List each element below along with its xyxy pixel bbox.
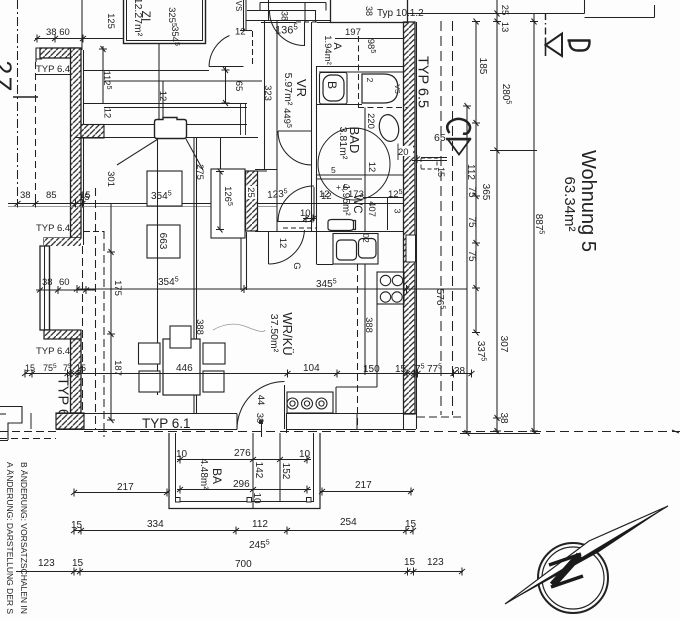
svg-text:220: 220 — [365, 113, 376, 129]
wall jog back hatch y328-345 — [44, 330, 81, 339]
svg-text:12: 12 — [319, 189, 330, 200]
letter C drawn rotated — [447, 119, 470, 134]
dashed line x35.5 — [35, 62, 37, 203]
svg-text:15: 15 — [436, 167, 446, 177]
svg-text:217: 217 — [117, 482, 134, 493]
door centre line — [261, 420, 263, 437]
chain line x494 — [496, 0, 498, 433]
svg-text:TYP 6.1: TYP 6.1 — [142, 416, 191, 431]
svg-text:104: 104 — [303, 363, 320, 374]
svg-text:38: 38 — [20, 190, 31, 201]
door ZI: leaf + arc — [209, 66, 244, 68]
line x220 above cupboard — [220, 137, 222, 171]
dashed roof overhang line y431 — [84, 431, 680, 433]
svg-text:VR: VR — [294, 79, 309, 97]
dim line y489 — [177, 489, 311, 491]
bottom counter with appliances — [287, 392, 333, 413]
chair right 1 — [203, 343, 225, 364]
hall door G arc — [269, 230, 305, 264]
TOP-SECTION — [101, 0, 424, 231]
wall BAD/WC y175-179 — [317, 174, 403, 176]
svg-text:75: 75 — [466, 216, 477, 228]
line x82 top — [81, 0, 83, 50]
window band x40-50 — [40, 246, 50, 330]
bottom-left wall corner hatch — [56, 413, 84, 429]
svg-text:388: 388 — [194, 319, 205, 335]
dashed connector y417 — [417, 416, 462, 418]
hall inner wall hatched x245-258 — [246, 171, 258, 231]
top-left exterior wall hatched band — [40, 48, 78, 58]
line x159 below ZI — [158, 43, 160, 136]
dashed vertical x104 with top jog — [84, 231, 104, 233]
bath door leaf — [278, 130, 312, 132]
appliance circle 1 — [287, 398, 298, 409]
oval washbasin — [377, 113, 401, 143]
chair right 2 — [203, 371, 224, 392]
svg-text:10: 10 — [300, 208, 311, 219]
svg-text:37.50m²: 37.50m² — [268, 314, 280, 353]
dim 65 vertical — [225, 67, 227, 105]
section marker D triangle — [546, 34, 563, 57]
svg-text:TYP 6.4: TYP 6.4 — [36, 346, 70, 357]
svg-text:388: 388 — [363, 317, 374, 333]
room A walls — [317, 66, 403, 68]
svg-text:25: 25 — [245, 187, 256, 198]
hall west wall x264-277 — [264, 21, 266, 170]
room ZI double rect — [124, 0, 206, 44]
svg-text:10: 10 — [251, 492, 262, 504]
svg-text:20: 20 — [398, 147, 409, 158]
bottom dim line y433 — [460, 433, 540, 435]
svg-text:A ÄNDERUNG: DARSTELLUNG DER: A ÄNDERUNG: DARSTELLUNG DER S — [5, 462, 15, 614]
svg-text:TYP 6.4: TYP 6.4 — [36, 223, 70, 234]
dim line y203 long — [8, 203, 406, 205]
washbasin B — [323, 75, 344, 101]
left wall lower hatched band — [71, 339, 82, 413]
sink basin left — [337, 240, 357, 260]
RIGHT-WALL — [397, 21, 462, 429]
letter N strokes — [549, 554, 583, 587]
chain line x476 — [475, 21, 477, 333]
flue diagonal right — [186, 139, 203, 170]
needle black half — [505, 506, 668, 604]
dashed vertical x82.5 lower — [82, 246, 84, 412]
svg-text:75: 75 — [466, 186, 477, 198]
svg-text:2: 2 — [365, 78, 375, 83]
svg-text:75: 75 — [466, 250, 477, 262]
turning circle — [318, 128, 390, 200]
short dim line y158 — [398, 144, 447, 161]
interior line y81 — [104, 80, 262, 82]
svg-text:5: 5 — [331, 165, 336, 175]
living verticals x157 x194 — [157, 138, 159, 395]
svg-text:123: 123 — [38, 558, 55, 569]
section marker C triangle — [448, 140, 470, 155]
svg-text:275: 275 — [194, 164, 205, 180]
wall WC/kitchen y231 — [311, 231, 403, 233]
svg-text:38: 38 — [280, 11, 290, 21]
dim line y459 — [177, 459, 311, 461]
chain x365 in bad — [364, 108, 366, 232]
svg-text:254: 254 — [340, 517, 357, 528]
wall step left end — [36, 48, 42, 62]
svg-text:60: 60 — [59, 277, 70, 288]
chain line x531 — [533, 13, 535, 433]
wall divider lines — [236, 414, 238, 430]
bath bottom line of tub zone — [317, 104, 362, 106]
svg-text:Wohnung 5: Wohnung 5 — [577, 150, 599, 252]
bathroom west wall — [311, 22, 313, 231]
svg-text:B: B — [325, 81, 339, 89]
svg-text:12.27m²: 12.27m² — [132, 0, 144, 37]
hall/living boundary verticals — [240, 232, 242, 290]
svg-text:WC: WC — [351, 194, 363, 213]
counter edge horiz y387 — [336, 386, 377, 388]
wc fixture bowl — [328, 220, 356, 231]
dashed overhead cabinet line x357 — [357, 264, 359, 429]
svg-text:323: 323 — [262, 85, 273, 101]
BATH-WC — [241, 22, 407, 290]
svg-text:WR/KÜ: WR/KÜ — [280, 312, 295, 355]
svg-text:2Z: 2Z — [0, 60, 16, 93]
kitchen sink counter — [333, 234, 378, 265]
entrance door leaf — [304, 22, 306, 46]
dashed vertical x95.5 — [95, 188, 97, 430]
svg-text:TYP 6.4: TYP 6.4 — [36, 64, 70, 75]
interior line y70.5 — [84, 70, 210, 72]
svg-text:13: 13 — [499, 22, 510, 33]
boundary tick — [13, 96, 38, 98]
balcony inner rect — [176, 433, 314, 502]
flue diagonal left — [117, 139, 158, 165]
bottom exterior wall band — [56, 413, 237, 415]
svg-text:38: 38 — [364, 6, 374, 16]
LEFT-SECTION — [0, 0, 406, 441]
svg-text:365: 365 — [480, 184, 491, 201]
BALCONY — [71, 420, 414, 509]
svg-text:276: 276 — [234, 448, 251, 459]
svg-text:VS: VS — [234, 1, 243, 12]
sketch squiggle — [213, 324, 265, 331]
chair top — [170, 326, 191, 348]
svg-text:123: 123 — [427, 557, 444, 568]
wc door leaf — [313, 187, 315, 221]
chair left 1 — [139, 343, 161, 364]
svg-text:175: 175 — [112, 280, 123, 296]
dining table — [163, 339, 200, 395]
chair left 2 — [139, 371, 160, 392]
svg-text:BA: BA — [210, 468, 224, 484]
svg-text:15: 15 — [395, 364, 407, 375]
svg-text:185: 185 — [477, 58, 488, 75]
balcony door leaf — [284, 385, 286, 429]
svg-text:3: 3 — [393, 209, 403, 214]
LIVING — [22, 81, 475, 413]
svg-text:VS: VS — [393, 84, 400, 94]
counter edge vertical x377 — [376, 304, 378, 387]
top rect with Typ label — [331, 0, 408, 23]
line x467 lower — [466, 106, 468, 433]
wall jog hatch y238-251 — [44, 238, 81, 330]
stove counter — [377, 272, 404, 304]
small shaft box on wall — [406, 235, 416, 262]
MARKERS — [408, 0, 655, 155]
svg-text:12: 12 — [277, 238, 288, 249]
DIMS-BOTTOM — [16, 517, 465, 576]
svg-text:15: 15 — [404, 557, 416, 568]
interior wall y103-107 double line — [84, 103, 247, 105]
line under label — [36, 74, 71, 76]
svg-text:85: 85 — [46, 190, 57, 201]
entrance door arc — [270, 11, 305, 46]
svg-text:150: 150 — [363, 364, 380, 375]
svg-text:38: 38 — [498, 412, 509, 424]
wc door arc — [278, 186, 314, 222]
svg-text:G: G — [291, 262, 302, 269]
svg-text:142: 142 — [253, 462, 264, 479]
svg-text:12: 12 — [235, 27, 246, 38]
dim line y289 — [77, 288, 467, 290]
box with 354-5 — [147, 171, 182, 206]
wall stub right of ZI door — [205, 0, 207, 43]
svg-text:296: 296 — [233, 479, 250, 490]
tiny mark far right — [672, 430, 679, 433]
svg-text:63.34m²: 63.34m² — [561, 176, 578, 231]
top-right outline lines — [408, 13, 585, 15]
dim 20 — [397, 146, 413, 156]
balcony posts — [176, 498, 181, 503]
cupboard rect — [211, 169, 245, 238]
svg-text:38: 38 — [42, 277, 53, 288]
dim line y373 long — [25, 373, 472, 375]
svg-text:B ÄNDERUNG: VORSATZSCHALEN: B ÄNDERUNG: VORSATZSCHALEN IN — [19, 462, 29, 614]
dashed small box below C — [421, 158, 437, 169]
right exterior wall hatched band — [404, 22, 416, 414]
compass outer circle — [538, 543, 608, 613]
balcony outer rect — [169, 433, 320, 509]
vertical line x163 — [162, 81, 164, 137]
dashed divider — [358, 36, 360, 108]
svg-text:TYP 6.5: TYP 6.5 — [415, 56, 431, 108]
svg-text:1.95m²: 1.95m² — [340, 184, 351, 216]
neighbour structure bottom-left steps — [0, 407, 22, 441]
dashed x252.5 — [252, 31, 254, 66]
dim line 126-5 inside — [219, 171, 221, 230]
MARGIN-TEXT — [5, 462, 29, 614]
shaft box in WC corner — [363, 198, 403, 231]
wall verticals in band — [241, 104, 246, 135]
svg-text:217: 217 — [355, 480, 372, 491]
svg-text:700: 700 — [235, 559, 252, 570]
sink basin right — [359, 239, 377, 259]
svg-text:307: 307 — [498, 336, 509, 353]
counter edge vertical x336 — [335, 387, 337, 413]
compass inner circle — [542, 547, 604, 609]
svg-text:15: 15 — [72, 558, 84, 569]
bath door arc — [278, 131, 312, 165]
wall inner face line — [83, 50, 85, 245]
bathtub — [362, 74, 398, 103]
dashed boundary x441 — [440, 21, 442, 415]
box with 663 — [147, 225, 180, 258]
svg-text:112: 112 — [252, 519, 268, 530]
svg-text:125: 125 — [105, 13, 116, 29]
COMPASS — [505, 506, 668, 613]
svg-text:12: 12 — [102, 108, 113, 119]
balcony internal verticals — [252, 433, 254, 508]
svg-text:407: 407 — [366, 201, 377, 217]
svg-text:152: 152 — [280, 463, 291, 480]
svg-text:65: 65 — [233, 81, 244, 92]
flue fixture box — [155, 118, 187, 139]
interior wall band y124-137 — [104, 124, 247, 126]
svg-text:12: 12 — [366, 162, 377, 173]
vanity outline — [320, 73, 348, 105]
hall door G leaf — [268, 232, 270, 264]
KITCHEN — [287, 233, 404, 429]
svg-text:301: 301 — [105, 171, 116, 187]
balcony door arc — [237, 382, 285, 430]
svg-text:1.94m²: 1.94m² — [322, 35, 333, 65]
dim line y38 — [35, 38, 124, 40]
svg-text:663: 663 — [157, 233, 168, 250]
svg-text:15: 15 — [79, 192, 90, 203]
svg-text:65: 65 — [434, 132, 446, 144]
chain x103 — [102, 46, 104, 104]
dim chain x111: 175 187 — [110, 203, 112, 420]
counter edge vertical x365 — [364, 264, 366, 375]
svg-text:5.97m²: 5.97m² — [282, 73, 294, 106]
property boundary dash-dot line — [17, 0, 19, 203]
svg-text:15: 15 — [25, 363, 35, 373]
appliance circle 3 — [316, 398, 327, 409]
dashed boundary x452.5 — [452, 21, 454, 415]
dim 25 on hatch — [245, 186, 257, 199]
top strip above entrance — [247, 3, 326, 23]
burner circles — [380, 275, 390, 285]
svg-text:334: 334 — [147, 519, 164, 530]
svg-text:38: 38 — [454, 366, 466, 377]
svg-text:446: 446 — [176, 363, 193, 374]
BOTTOM-WALL — [56, 382, 680, 434]
wall top lines y20-22 — [246, 20, 330, 22]
left exterior wall hatched vertical band — [71, 48, 82, 238]
wall corner hatch at y124-139 — [81, 125, 104, 139]
DIMS-RIGHT — [434, 0, 679, 436]
svg-text:4.48m²: 4.48m² — [198, 458, 209, 490]
needle white half — [505, 506, 668, 604]
letter D drawn rotated — [568, 41, 591, 51]
svg-text:44: 44 — [255, 395, 266, 406]
dashed pass door — [283, 227, 316, 229]
appliance circle 2 — [302, 398, 313, 409]
svg-text:02: 02 — [361, 233, 371, 243]
section marker D dash-dot line — [545, 13, 547, 38]
outer face line — [416, 22, 418, 429]
